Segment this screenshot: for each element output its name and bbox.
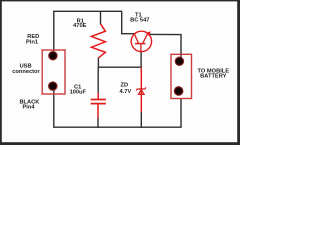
svg-text:BC 547: BC 547: [130, 17, 149, 23]
resistor R1: [91, 24, 105, 58]
USB connector box: [42, 50, 65, 94]
svg-text:100uF: 100uF: [70, 90, 87, 96]
wire base junction vertical: [140, 51, 142, 67]
svg-text:470E: 470E: [73, 23, 86, 29]
wire emitter to output connector: [149, 34, 181, 60]
wire C1 top lead: [97, 67, 99, 93]
transistor T1: [131, 31, 151, 52]
wire bottom rail: [54, 87, 181, 128]
wire zener bottom lead: [140, 112, 142, 128]
output top dot: [175, 57, 183, 65]
svg-text:Pin4: Pin4: [22, 105, 35, 111]
USB pin4 dot: [49, 82, 57, 90]
wire R1 top lead: [100, 11, 102, 24]
svg-text:BATTERY: BATTERY: [200, 74, 226, 80]
border frame: [0, 0, 240, 145]
zener diode ZD: [136, 68, 145, 112]
capacitor C1: [91, 93, 106, 118]
wire top rail: [54, 11, 135, 57]
output bottom dot: [174, 87, 183, 96]
svg-text:connector: connector: [12, 69, 40, 75]
svg-text:4.7V: 4.7V: [120, 89, 132, 95]
wire junction horizontal: [98, 66, 142, 68]
svg-text:ZD: ZD: [121, 82, 129, 88]
output connector box: [171, 54, 192, 98]
wire R1 bottom lead: [97, 58, 99, 68]
wire C1 bottom lead: [97, 118, 99, 128]
svg-text:Pin1: Pin1: [26, 39, 38, 45]
USB pin1 dot: [49, 52, 57, 60]
